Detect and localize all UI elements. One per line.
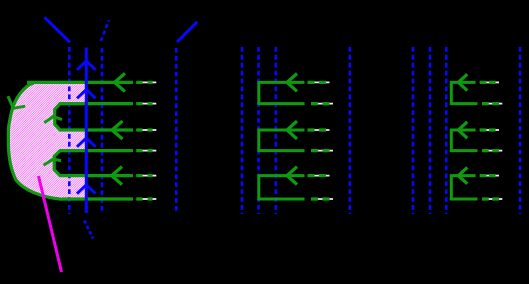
slot 2 current loop (L4/L5) bbox=[54, 151, 133, 176]
middle current loop U2 bbox=[259, 130, 305, 151]
right current loop V3 bbox=[451, 176, 477, 199]
field line B barb 1 bbox=[77, 61, 96, 70]
middle group field line M2 (behind green loop) bbox=[257, 47, 260, 214]
magenta leader line bbox=[39, 176, 62, 272]
field line D (dashed, x=176.2) bbox=[175, 48, 178, 214]
right group field line R3 bbox=[445, 47, 448, 214]
right current loop V1 bbox=[451, 82, 477, 103]
V2 dash tails bbox=[480, 128, 496, 131]
field line A (dashed, x=69.3) bbox=[68, 47, 71, 214]
field line B (solid, x=86.3) bbox=[85, 48, 88, 214]
middle group field line M1 bbox=[241, 47, 244, 214]
conductor outer boundary arc (green) bbox=[8, 83, 62, 199]
slot 1 barb bbox=[44, 117, 62, 123]
field line B bottom bend (dashed diagonal) bbox=[84, 221, 93, 239]
right group field line R1 bbox=[412, 47, 415, 214]
boundary current barb bbox=[8, 96, 25, 108]
V3 dash tails bbox=[480, 174, 496, 177]
L5 dash tail bbox=[136, 174, 152, 177]
field line B barb 2 bbox=[77, 90, 96, 99]
U2 arrow bbox=[287, 121, 297, 139]
field line B barb 3 bbox=[77, 138, 96, 147]
white fade connectors right group bbox=[485, 82, 502, 199]
L2 dash tail bbox=[136, 102, 152, 105]
field line D top bend (solid diagonal up-right) bbox=[177, 22, 197, 42]
U1 arrow bbox=[287, 74, 297, 92]
field line C top bend (dashed diagonal up-right) bbox=[101, 20, 109, 41]
field line B barb 4 bbox=[77, 185, 96, 194]
L1 arrow bbox=[115, 73, 126, 91]
L3 arrow bbox=[112, 121, 123, 139]
V1 dash tails bbox=[480, 81, 496, 84]
middle group field line M3 bbox=[274, 47, 277, 214]
conductor cross-section (pink hatched E-shape) bbox=[8, 82, 85, 199]
right current loop V2 bbox=[451, 130, 477, 151]
middle group field line M4 bbox=[348, 47, 351, 214]
U3 arrow bbox=[287, 167, 297, 185]
L4 dash tail bbox=[136, 149, 152, 152]
V2 arrow bbox=[458, 122, 467, 138]
U3 dash tails bbox=[308, 174, 327, 177]
V3 arrow bbox=[458, 167, 467, 183]
eddy current line L1 (top edge of conductor) bbox=[27, 81, 133, 84]
L5 arrow bbox=[112, 167, 123, 185]
L3 dash tail bbox=[136, 128, 152, 131]
right group field line R4 bbox=[519, 47, 522, 214]
white fade connectors middle group bbox=[313, 82, 333, 199]
U2 dash tails bbox=[308, 128, 327, 131]
field line A top bend (solid diagonal up-left) bbox=[45, 17, 71, 42]
field line C (dashed, x=102) bbox=[101, 48, 104, 214]
eddy current line L6 (bottom edge of conductor) bbox=[62, 197, 133, 200]
middle current loop U3 bbox=[259, 176, 305, 199]
right group field line R2 bbox=[429, 47, 432, 214]
slot 1 current loop (L2/L3) bbox=[55, 104, 133, 130]
hatch stripes bbox=[0, 79, 211, 203]
V1 arrow bbox=[458, 74, 467, 90]
L6 dash tail bbox=[136, 197, 152, 200]
slot 2 barb bbox=[44, 159, 61, 165]
U1 dash tails bbox=[308, 81, 327, 84]
white fade connectors left group bbox=[142, 82, 156, 199]
middle current loop U1 bbox=[259, 82, 305, 103]
L1 dash tail bbox=[136, 81, 152, 84]
